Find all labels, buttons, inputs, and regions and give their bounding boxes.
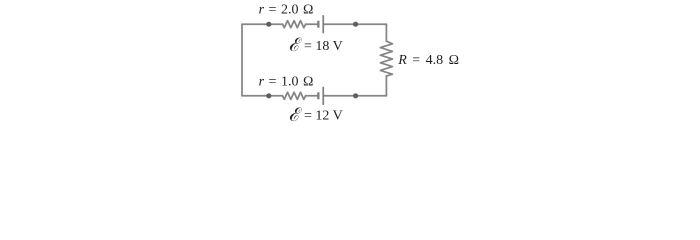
wire right side upper — [385, 24, 387, 41]
label EMF1 script E — [290, 38, 302, 52]
svg-text:r = 2.0 Ω: r = 2.0 Ω — [259, 2, 314, 17]
junction node top-left — [266, 22, 271, 27]
wire resistor r2 to battery B2 — [306, 95, 317, 97]
wire resistor r1 to battery B1 — [306, 23, 317, 25]
resistor r1 zigzag (top, r = 2.0 ohm) — [283, 21, 306, 28]
resistor R zigzag (right, R = 4.8 ohm) — [380, 41, 392, 76]
wire top-left segment — [242, 23, 283, 25]
battery B1 long plate (positive) — [322, 15, 324, 33]
svg-text:= 18 V: = 18 V — [304, 39, 343, 54]
junction node bottom-left — [266, 93, 271, 98]
resistor r2 zigzag (bottom, r = 1.0 ohm) — [283, 92, 306, 99]
svg-text:R = 4.8 Ω: R = 4.8 Ω — [397, 53, 459, 68]
wire right side lower — [385, 76, 387, 96]
wire battery B2 to bottom-right corner — [324, 95, 386, 97]
battery B2 long plate (positive) — [322, 87, 324, 105]
battery B2 short plate (negative) — [317, 92, 319, 99]
wire battery B1 to top-right corner — [324, 23, 386, 25]
battery B1 short plate (negative) — [317, 21, 319, 28]
svg-text:= 12 V: = 12 V — [304, 109, 343, 124]
junction node top-right — [353, 22, 358, 27]
wire bottom-left segment — [242, 95, 283, 97]
wire left vertical side — [241, 24, 243, 96]
label EMF2 script E — [290, 108, 302, 122]
junction node bottom-right — [353, 93, 358, 98]
svg-text:r = 1.0 Ω: r = 1.0 Ω — [259, 74, 314, 89]
